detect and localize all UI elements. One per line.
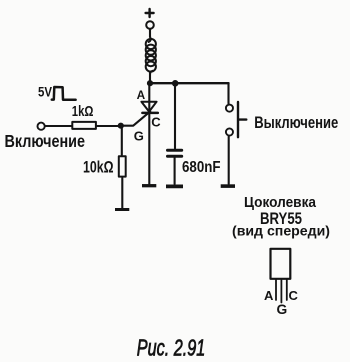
- package pin G lead: [280, 280, 282, 303]
- svg-text:A: A: [264, 288, 274, 303]
- wire gate node down to R2: [121, 126, 123, 155]
- supply plus sign: [146, 9, 154, 17]
- package pin C lead: [286, 280, 288, 300]
- ground pushbutton: [221, 184, 235, 188]
- wire input terminal to resistor R1: [45, 125, 71, 127]
- inductor L1: [146, 37, 156, 75]
- thyristor cathode bar: [142, 112, 157, 115]
- thyristor V1 triangle: [141, 102, 156, 112]
- wire capacitor to ground: [174, 158, 176, 185]
- resistor R2 10k body: [119, 156, 126, 176]
- svg-text:G: G: [277, 302, 288, 317]
- svg-text:Рис. 2.91: Рис. 2.91: [137, 335, 206, 361]
- ground capacitor: [166, 184, 183, 188]
- node capacitor tap: [172, 80, 179, 87]
- wire terminal to inductor: [149, 30, 151, 38]
- svg-text:1kΩ: 1kΩ: [72, 104, 94, 120]
- svg-text:5V: 5V: [38, 83, 53, 99]
- svg-text:G: G: [134, 129, 144, 144]
- svg-text:Цоколевка: Цоколевка: [244, 194, 317, 211]
- wire pushbutton to ground: [228, 137, 230, 185]
- svg-text:A: A: [137, 88, 146, 102]
- pulse symbol 5V: [52, 87, 76, 100]
- terminal input circle: [38, 123, 45, 130]
- gate wire: [121, 111, 150, 125]
- ground cathode: [142, 184, 156, 187]
- node anode junction: [147, 80, 153, 86]
- wire cathode down to ground: [148, 113, 150, 184]
- pushbutton S2 bottom contact: [226, 128, 233, 135]
- svg-text:Выключение: Выключение: [254, 114, 338, 132]
- svg-text:10kΩ: 10kΩ: [83, 159, 114, 177]
- wire bus corner down to pushbutton: [227, 83, 229, 104]
- wire inductor to anode node: [149, 72, 151, 85]
- pushbutton S2 top contact: [226, 105, 233, 112]
- package BRY55 outline: [271, 249, 291, 279]
- resistor R1 1k body: [72, 122, 96, 129]
- svg-text:(вид спереди): (вид спереди): [232, 223, 330, 238]
- wire cap tap down to capacitor: [174, 83, 176, 149]
- wire R1 to gate node: [97, 125, 121, 127]
- wire anode node to thyristor: [148, 83, 150, 112]
- ground R2: [115, 208, 129, 211]
- supply terminal circle: [146, 21, 154, 29]
- wire R2 to ground: [121, 178, 123, 208]
- node gate junction: [118, 123, 124, 129]
- svg-text:680nF: 680nF: [182, 159, 221, 176]
- svg-text:Включение: Включение: [5, 131, 86, 151]
- svg-text:C: C: [151, 114, 161, 129]
- wire top horizontal bus: [150, 82, 229, 84]
- svg-text:C: C: [289, 288, 299, 303]
- pushbutton S2 actuator: [238, 102, 246, 137]
- capacitor C1 plates: [168, 150, 182, 156]
- package pin A lead: [275, 280, 277, 300]
